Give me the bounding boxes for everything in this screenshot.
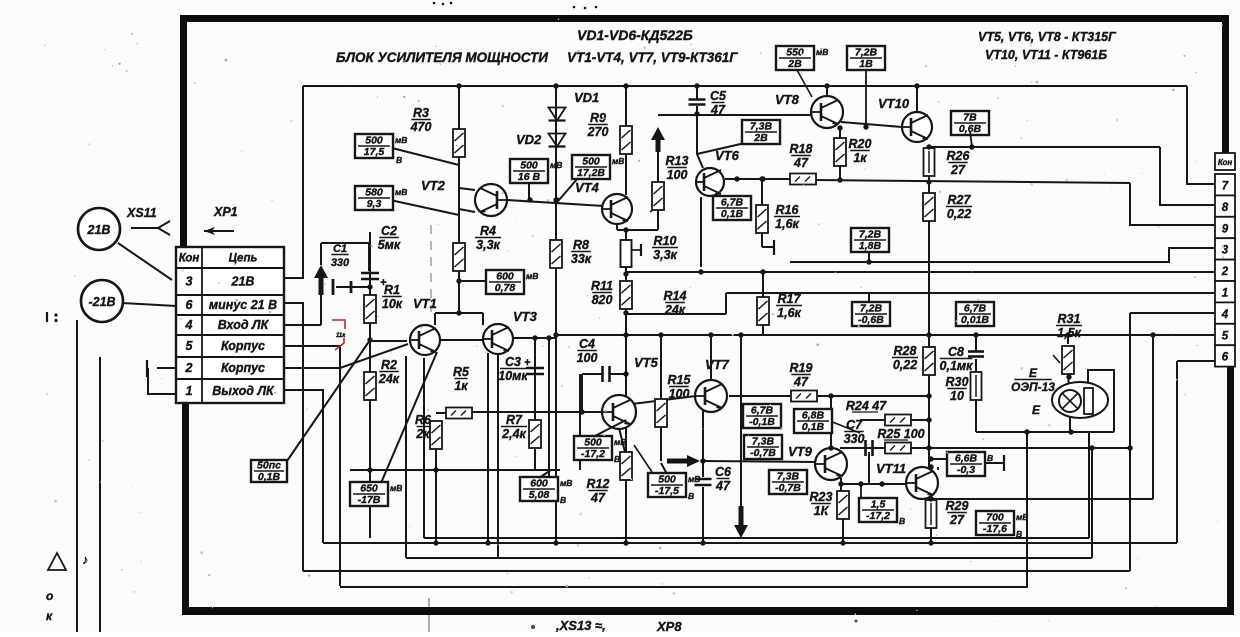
svg-text:8: 8	[1222, 202, 1229, 214]
svg-text:5: 5	[1222, 330, 1229, 342]
svg-text:R13: R13	[666, 154, 689, 168]
svg-text:-17,2: -17,2	[581, 448, 605, 460]
svg-text:47: 47	[793, 375, 809, 389]
svg-text:7,2В: 7,2В	[860, 303, 883, 315]
svg-text:мВ: мВ	[395, 135, 407, 145]
svg-text:600: 600	[496, 271, 514, 283]
svg-text:600: 600	[530, 478, 548, 490]
svg-text:Выход ЛК: Выход ЛК	[212, 384, 275, 398]
svg-text:R20: R20	[849, 137, 872, 151]
svg-text:R24 47: R24 47	[846, 399, 887, 413]
svg-text:R14: R14	[664, 289, 687, 303]
svg-text:0,22: 0,22	[893, 358, 917, 372]
svg-text:1к: 1к	[454, 379, 468, 393]
svg-text:VD2: VD2	[516, 132, 542, 147]
svg-text:6,7В: 6,7В	[964, 303, 987, 315]
svg-text:7В: 7В	[963, 112, 977, 124]
svg-text:VD1: VD1	[574, 90, 599, 105]
svg-text:C8: C8	[948, 345, 964, 359]
svg-text:R8: R8	[573, 238, 589, 252]
svg-text:5: 5	[186, 339, 194, 353]
svg-text:Е: Е	[1032, 403, 1041, 417]
svg-text:7,2В: 7,2В	[855, 47, 878, 59]
svg-text:0,1В: 0,1В	[802, 421, 825, 433]
svg-text:7: 7	[1222, 181, 1229, 193]
svg-text:C5: C5	[710, 89, 727, 103]
svg-text:9,3: 9,3	[367, 198, 382, 210]
svg-text:0,1В: 0,1В	[721, 208, 744, 220]
svg-text:Корпус: Корпус	[221, 361, 265, 375]
svg-text:27: 27	[950, 163, 966, 177]
svg-text:мВ: мВ	[688, 474, 700, 484]
svg-text:В: В	[396, 155, 402, 165]
svg-text:-21В: -21В	[88, 295, 115, 309]
svg-text:ХР8: ХР8	[656, 619, 682, 632]
svg-text:17,5: 17,5	[364, 146, 385, 158]
svg-text:11к: 11к	[336, 333, 346, 339]
svg-text:R15: R15	[668, 373, 692, 387]
svg-text:R2: R2	[381, 358, 397, 372]
svg-text:270: 270	[587, 125, 609, 139]
svg-text:минус 21 В: минус 21 В	[209, 298, 277, 312]
svg-text:0,01В: 0,01В	[961, 314, 989, 326]
svg-text:В: В	[987, 453, 993, 463]
svg-text:XP1: XP1	[213, 205, 238, 219]
svg-text:100: 100	[667, 168, 688, 182]
svg-text:4: 4	[185, 318, 193, 332]
svg-text:мВ: мВ	[390, 483, 402, 493]
svg-text:100: 100	[577, 351, 598, 365]
svg-text:7,3В: 7,3В	[752, 436, 775, 448]
svg-text:0,22: 0,22	[947, 207, 971, 221]
svg-text:C6: C6	[715, 465, 732, 479]
svg-text:мВ: мВ	[612, 156, 624, 166]
svg-text:6,7В: 6,7В	[751, 405, 774, 417]
svg-text:50пс: 50пс	[257, 460, 281, 472]
svg-text:2к: 2к	[415, 427, 430, 441]
svg-text:1,6к: 1,6к	[775, 217, 799, 231]
svg-text:о: о	[46, 589, 53, 603]
svg-text:100: 100	[669, 387, 690, 401]
svg-text:820: 820	[592, 293, 613, 307]
svg-text:10мк: 10мк	[498, 369, 528, 383]
svg-text:VT6: VT6	[715, 148, 740, 163]
svg-text:0,1В: 0,1В	[258, 471, 281, 483]
svg-text:16 В: 16 В	[518, 171, 541, 183]
svg-text:7,2В: 7,2В	[859, 229, 882, 241]
svg-text:-0,1В: -0,1В	[749, 416, 775, 428]
svg-text:VT10: VT10	[878, 96, 910, 111]
svg-text:330: 330	[844, 432, 865, 446]
svg-text:VT1: VT1	[413, 296, 437, 311]
svg-text:R28: R28	[894, 344, 917, 358]
svg-text:R5: R5	[453, 365, 470, 379]
svg-text:47: 47	[710, 103, 726, 117]
svg-text:24к: 24к	[664, 303, 686, 317]
svg-text:R12: R12	[587, 477, 610, 491]
svg-text:ОЭП-13: ОЭП-13	[1011, 380, 1055, 394]
svg-text:-0,3: -0,3	[957, 464, 975, 476]
svg-text:C4: C4	[579, 337, 595, 351]
svg-text:VT11: VT11	[876, 461, 906, 476]
svg-text:2В: 2В	[787, 58, 802, 70]
svg-text:-17,2: -17,2	[866, 510, 890, 522]
svg-text:R17: R17	[778, 292, 802, 306]
svg-text:VT9: VT9	[788, 444, 813, 459]
svg-text:R16: R16	[776, 203, 800, 217]
svg-text:580: 580	[365, 187, 383, 199]
svg-text:500: 500	[582, 156, 600, 168]
svg-text:R6: R6	[415, 413, 432, 427]
svg-text:6,6В: 6,6В	[955, 453, 978, 465]
svg-text:17,2В: 17,2В	[577, 167, 605, 179]
svg-text:2: 2	[1221, 266, 1229, 278]
svg-text:1к: 1к	[853, 151, 867, 165]
svg-text:1: 1	[186, 384, 193, 398]
svg-text:мВ: мВ	[526, 271, 538, 281]
svg-text:Кон: Кон	[179, 253, 200, 265]
svg-text:47: 47	[715, 479, 731, 493]
svg-text:650: 650	[360, 483, 378, 495]
svg-text:-0,7В: -0,7В	[750, 447, 776, 459]
svg-text:21В: 21В	[231, 275, 255, 289]
svg-text:VT3: VT3	[513, 309, 538, 324]
svg-text:3,3к: 3,3к	[476, 238, 500, 252]
svg-text:2: 2	[185, 361, 193, 375]
svg-text:VT4: VT4	[575, 180, 600, 195]
svg-text:R1: R1	[384, 283, 400, 297]
svg-text:Кон: Кон	[1218, 158, 1233, 167]
svg-text:R26: R26	[947, 149, 971, 163]
svg-text:мВ: мВ	[614, 437, 626, 447]
svg-text:C3: C3	[505, 355, 521, 369]
svg-text:33к: 33к	[571, 252, 592, 266]
svg-text:R25 100: R25 100	[877, 427, 924, 441]
svg-text:R11: R11	[591, 279, 613, 293]
svg-text:6,8В: 6,8В	[802, 410, 825, 422]
svg-text:В: В	[614, 454, 620, 464]
svg-text:♪: ♪	[82, 552, 89, 567]
svg-text:мВ: мВ	[395, 187, 407, 197]
svg-text:R23: R23	[810, 490, 833, 504]
svg-text:0,1мк: 0,1мк	[940, 359, 974, 373]
svg-text:500: 500	[658, 474, 676, 486]
svg-text:24к: 24к	[378, 372, 400, 386]
svg-text:+: +	[524, 357, 531, 369]
svg-text:0,78: 0,78	[495, 282, 516, 294]
svg-text:1: 1	[1222, 288, 1228, 300]
svg-text:R29: R29	[946, 499, 969, 513]
svg-text:Е: Е	[1029, 366, 1038, 380]
svg-text:27: 27	[949, 513, 965, 527]
svg-text:R27: R27	[948, 193, 972, 207]
svg-text:-0,7В: -0,7В	[775, 482, 801, 494]
svg-text:R30: R30	[946, 375, 969, 389]
svg-text:21В: 21В	[87, 223, 111, 237]
svg-text:47: 47	[793, 156, 809, 170]
svg-text:-17,5: -17,5	[655, 485, 679, 497]
svg-text:Корпус: Корпус	[221, 339, 265, 353]
svg-text:R31: R31	[1058, 312, 1081, 326]
svg-text:VT5, VT6, VT8 - КТ315Г: VT5, VT6, VT8 - КТ315Г	[978, 30, 1117, 44]
svg-text:7,3В: 7,3В	[750, 121, 773, 133]
svg-text:R4: R4	[480, 224, 496, 238]
svg-text:к: к	[46, 609, 53, 623]
svg-text:C2: C2	[381, 224, 397, 238]
svg-text:4: 4	[1221, 309, 1229, 321]
svg-text:5мк: 5мк	[378, 238, 401, 252]
svg-text:-0,6В: -0,6В	[858, 314, 884, 326]
svg-text:9: 9	[1222, 223, 1229, 235]
svg-text:1К: 1К	[814, 504, 830, 518]
svg-text:VD1-VD6-КД522Б: VD1-VD6-КД522Б	[577, 27, 693, 43]
svg-text:7,3В: 7,3В	[777, 471, 800, 483]
svg-text:-17В: -17В	[358, 494, 381, 506]
svg-text:1В: 1В	[859, 58, 873, 70]
svg-text:R7: R7	[506, 413, 523, 427]
svg-text:БЛОК УСИЛИТЕЛЯ МОЩНОСТИ: БЛОК УСИЛИТЕЛЯ МОЩНОСТИ	[336, 50, 548, 65]
svg-text:47: 47	[590, 491, 606, 505]
svg-text:VT10, VT11 - КТ961Б: VT10, VT11 - КТ961Б	[985, 48, 1107, 62]
svg-text:R18: R18	[790, 142, 813, 156]
svg-text:1,5: 1,5	[871, 499, 886, 511]
svg-text:6: 6	[186, 298, 194, 312]
svg-text:,XS13 ≈,: ,XS13 ≈,	[555, 618, 606, 632]
svg-text:330: 330	[331, 257, 350, 269]
svg-text:3,3к: 3,3к	[653, 248, 677, 262]
svg-text:10к: 10к	[382, 297, 403, 311]
svg-text:R19: R19	[790, 361, 813, 375]
svg-text:Цепь: Цепь	[229, 253, 258, 265]
svg-text:В: В	[1016, 529, 1022, 539]
svg-text:500: 500	[584, 437, 602, 449]
svg-text:VT5: VT5	[634, 355, 659, 370]
svg-text:550: 550	[786, 47, 804, 59]
svg-text:700: 700	[986, 512, 1004, 524]
svg-text:мВ: мВ	[1016, 512, 1028, 522]
svg-text:1,8В: 1,8В	[859, 240, 882, 252]
svg-text:Вход ЛК: Вход ЛК	[218, 318, 270, 332]
svg-text:VT2: VT2	[421, 178, 446, 193]
svg-text:-17,6: -17,6	[983, 523, 1007, 535]
svg-text:2В: 2В	[753, 132, 768, 144]
svg-text:6: 6	[1222, 352, 1229, 364]
svg-text:R10: R10	[654, 234, 677, 248]
svg-text:XS11: XS11	[126, 206, 157, 220]
svg-text:В: В	[899, 516, 905, 526]
svg-text:VT7: VT7	[705, 357, 730, 372]
svg-text:3: 3	[186, 275, 193, 289]
svg-text:6,7В: 6,7В	[721, 197, 744, 209]
svg-text:мВ: мВ	[560, 478, 572, 488]
svg-text:10: 10	[950, 389, 964, 403]
svg-text:1,6к: 1,6к	[777, 306, 801, 320]
svg-text:VT8: VT8	[775, 92, 800, 107]
svg-text:В: В	[688, 491, 694, 501]
svg-text:500: 500	[520, 160, 538, 172]
svg-text:VT1-VT4, VT7, VT9-КТ361Г: VT1-VT4, VT7, VT9-КТ361Г	[567, 50, 738, 65]
svg-text:500: 500	[365, 135, 383, 147]
svg-text:2,4к: 2,4к	[501, 427, 526, 441]
svg-text:C1: C1	[333, 243, 347, 255]
svg-text:470: 470	[410, 120, 432, 134]
svg-text:R3: R3	[413, 106, 429, 120]
svg-text:мВ: мВ	[550, 160, 562, 170]
svg-text:5,08: 5,08	[529, 489, 550, 501]
svg-text:В: В	[560, 495, 566, 505]
